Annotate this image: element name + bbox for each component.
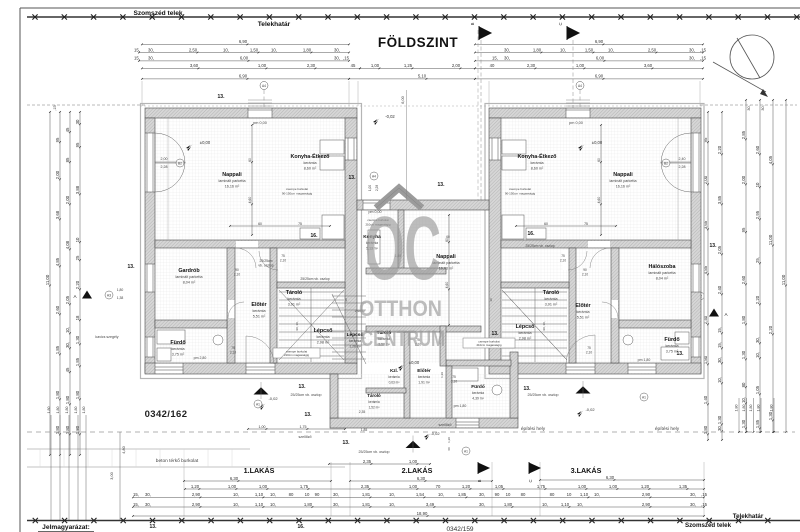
svg-text:10,: 10, xyxy=(542,502,548,507)
svg-text:15,: 15, xyxy=(492,56,498,61)
svg-text:Lépcső: Lépcső xyxy=(516,324,536,330)
svg-text:2,98 m²: 2,98 m² xyxy=(519,337,532,341)
svg-text:-0,02: -0,02 xyxy=(385,114,395,119)
svg-text:1,20: 1,20 xyxy=(447,437,451,443)
svg-text:2,00: 2,00 xyxy=(65,195,70,204)
left wing floor xyxy=(155,118,345,363)
svg-text:1,50: 1,50 xyxy=(585,47,594,52)
svg-text:30,: 30, xyxy=(504,56,510,61)
svg-text:Konyha-Étkező: Konyha-Étkező xyxy=(291,152,331,160)
svg-text:80: 80 xyxy=(741,382,746,387)
svg-text:2,10: 2,10 xyxy=(280,259,286,263)
svg-text:6,00: 6,00 xyxy=(240,56,249,61)
svg-text:2,10: 2,10 xyxy=(230,351,236,355)
svg-text:30: 30 xyxy=(75,119,80,124)
svg-text:4,60: 4,60 xyxy=(597,197,601,204)
svg-text:Szomszéd telek: Szomszéd telek xyxy=(685,522,732,529)
north compass symbol xyxy=(713,35,774,92)
svg-text:15,: 15, xyxy=(133,502,139,507)
svg-text:±0,00: ±0,00 xyxy=(409,360,420,365)
left wing french door arcs xyxy=(155,133,185,163)
svg-text:6,30: 6,30 xyxy=(230,476,239,481)
svg-text:,15: ,15 xyxy=(701,492,708,497)
svg-text:1,80: 1,80 xyxy=(55,390,60,399)
svg-text:1,85: 1,85 xyxy=(458,492,467,497)
svg-text:építési hely: építési hely xyxy=(521,426,546,432)
svg-text:2,30: 2,30 xyxy=(527,63,536,68)
svg-text:1,80: 1,80 xyxy=(742,405,746,412)
svg-text:1,80: 1,80 xyxy=(82,407,86,414)
svg-text:13.: 13. xyxy=(438,182,446,188)
svg-text:25/25cm vb. oszlop: 25/25cm vb. oszlop xyxy=(291,393,322,397)
svg-text:30,: 30, xyxy=(689,47,695,52)
right wing stairs xyxy=(502,288,567,362)
svg-text:kerámia: kerámia xyxy=(287,297,301,301)
svg-text:kerámia: kerámia xyxy=(576,310,590,314)
svg-text:15,: 15, xyxy=(134,47,140,52)
svg-text:Kzl.: Kzl. xyxy=(390,368,398,373)
courtyard facing wall window right xyxy=(490,138,501,160)
svg-text:30,: 30, xyxy=(145,502,151,507)
svg-text:1,10: 1,10 xyxy=(561,502,570,507)
svg-text:Előtér: Előtér xyxy=(251,302,267,308)
svg-text:1,80: 1,80 xyxy=(65,395,70,404)
svg-text:2,50: 2,50 xyxy=(189,47,198,52)
svg-text:15,: 15, xyxy=(717,327,722,333)
svg-text:kerámia: kerámia xyxy=(316,335,330,339)
svg-text:2,20: 2,20 xyxy=(755,295,760,304)
svg-text:1,80: 1,80 xyxy=(770,405,774,412)
svg-text:3.LAKÁS: 3.LAKÁS xyxy=(571,466,602,475)
svg-text:laminált parketta: laminált parketta xyxy=(648,271,676,275)
property boundary bottom xyxy=(27,520,800,522)
svg-text:2,98 m²: 2,98 m² xyxy=(317,341,330,345)
svg-text:1,80: 1,80 xyxy=(741,315,746,324)
svg-text:3,49: 3,49 xyxy=(426,502,435,507)
svg-text:13.: 13. xyxy=(524,386,532,392)
svg-text:OTTHON: OTTHON xyxy=(359,296,442,321)
svg-text:1,80: 1,80 xyxy=(304,502,313,507)
svg-text:10,: 10, xyxy=(438,492,444,497)
svg-text:1,80: 1,80 xyxy=(56,407,60,414)
svg-text:8,60 m²: 8,60 m² xyxy=(304,167,317,171)
svg-text:2,90: 2,90 xyxy=(642,492,651,497)
courtyard centerline xyxy=(406,90,408,200)
svg-text:2,30: 2,30 xyxy=(307,63,316,68)
right wing openings xyxy=(692,133,701,192)
svg-text:2.LAKÁS: 2.LAKÁS xyxy=(402,466,433,475)
svg-text:75: 75 xyxy=(281,254,285,258)
svg-text:kerámia: kerámia xyxy=(544,297,558,301)
svg-text:30,: 30, xyxy=(334,47,340,52)
svg-text:8,04 m²: 8,04 m² xyxy=(656,277,669,281)
svg-text:90: 90 xyxy=(583,268,587,272)
svg-text:80: 80 xyxy=(521,492,526,497)
svg-text:30,: 30, xyxy=(479,492,485,497)
svg-text:Tároló: Tároló xyxy=(286,290,303,296)
svg-text:,15: ,15 xyxy=(701,502,708,507)
svg-text:30: 30 xyxy=(489,298,493,302)
svg-text:2,10: 2,10 xyxy=(234,273,240,277)
vertical guides from dim block to building xyxy=(141,81,143,106)
svg-text:0,63 m²: 0,63 m² xyxy=(389,381,400,385)
svg-text:kerámia: kerámia xyxy=(171,347,185,351)
svg-text:1,91 m²: 1,91 m² xyxy=(418,381,430,385)
dimension rows top-middle xyxy=(360,67,475,69)
fence connector dims bottom-right xyxy=(738,398,740,432)
svg-text:10,: 10, xyxy=(270,492,276,497)
svg-text:11,00: 11,00 xyxy=(45,274,50,285)
svg-text:2,60: 2,60 xyxy=(55,305,60,314)
svg-text:1,10: 1,10 xyxy=(580,492,589,497)
svg-text:1,30: 1,30 xyxy=(717,415,722,424)
svg-text:10,: 10, xyxy=(608,47,614,52)
svg-text:Telekhatár: Telekhatár xyxy=(733,513,764,520)
beton terko burkolat walkway xyxy=(27,448,250,450)
svg-text:8,60 m²: 8,60 m² xyxy=(531,167,544,171)
svg-text:Lépcső: Lépcső xyxy=(314,328,334,334)
svg-text:1,80: 1,80 xyxy=(75,390,80,399)
svg-text:85: 85 xyxy=(65,157,70,162)
svg-text:2,00: 2,00 xyxy=(741,175,746,184)
svg-text:1,05: 1,05 xyxy=(755,385,760,394)
svg-text:2,28: 2,28 xyxy=(679,165,686,169)
svg-text:16,16 m²: 16,16 m² xyxy=(616,185,631,189)
svg-text:30,: 30, xyxy=(479,502,485,507)
svg-text:1,00: 1,00 xyxy=(576,63,585,68)
svg-text:Tároló: Tároló xyxy=(367,393,381,398)
svg-text:90: 90 xyxy=(235,268,239,272)
svg-text:-0,02: -0,02 xyxy=(585,407,595,412)
svg-text:40: 40 xyxy=(490,63,495,68)
svg-text:30,: 30, xyxy=(333,502,339,507)
page border frame xyxy=(20,7,800,9)
svg-text:Előtér: Előtér xyxy=(417,368,431,374)
svg-text:2,10: 2,10 xyxy=(582,273,588,277)
svg-text:1,75: 1,75 xyxy=(537,484,546,489)
interior door swing arcs right wing xyxy=(590,248,610,268)
svg-text:1,80: 1,80 xyxy=(65,407,69,414)
svg-text:1,10: 1,10 xyxy=(255,502,264,507)
entry porch chevron xyxy=(376,188,422,208)
svg-text:1,00: 1,00 xyxy=(409,484,418,489)
svg-text:2,28: 2,28 xyxy=(161,165,168,169)
svg-text:1,38: 1,38 xyxy=(117,296,124,300)
svg-text:2,28: 2,28 xyxy=(375,185,379,191)
svg-text:30,: 30, xyxy=(65,342,70,348)
svg-text:13.: 13. xyxy=(349,175,357,181)
svg-text:30,: 30, xyxy=(717,357,722,363)
svg-text:2,40: 2,40 xyxy=(679,157,686,161)
svg-text:15,: 15, xyxy=(133,492,139,497)
svg-text:B: B xyxy=(477,479,482,482)
svg-text:1,80: 1,80 xyxy=(117,288,124,292)
svg-text:±0,00: ±0,00 xyxy=(200,140,211,145)
svg-text:1,28 m²: 1,28 m² xyxy=(349,345,361,349)
center unit exterior walls xyxy=(357,200,489,210)
svg-text:1,20: 1,20 xyxy=(641,484,650,489)
svg-text:A4: A4 xyxy=(262,84,266,88)
right wing bath fixtures xyxy=(623,332,689,360)
svg-text:6,30: 6,30 xyxy=(417,476,426,481)
svg-text:1,81: 1,81 xyxy=(362,502,371,507)
vertical dimension chains left xyxy=(49,112,51,455)
svg-text:3,00: 3,00 xyxy=(110,472,114,479)
porch triangles xyxy=(254,387,269,394)
svg-text:75: 75 xyxy=(452,375,456,379)
svg-text:1,80: 1,80 xyxy=(47,407,51,414)
svg-text:1,85: 1,85 xyxy=(75,357,80,366)
entrance steps left wing xyxy=(248,99,272,101)
svg-text:,15: ,15 xyxy=(700,47,707,52)
svg-text:95: 95 xyxy=(741,227,746,232)
right wing bottom wall openings xyxy=(566,364,595,374)
svg-text:pm 0,00: pm 0,00 xyxy=(253,121,267,125)
center unit entry opening xyxy=(363,201,390,210)
svg-text:90, 10,: 90, 10, xyxy=(295,321,299,330)
svg-text:8,04 m²: 8,04 m² xyxy=(183,281,196,285)
svg-text:C: C xyxy=(558,22,563,25)
svg-text:4,39 m²: 4,39 m² xyxy=(472,397,484,401)
svg-text:Fürdő: Fürdő xyxy=(664,337,680,343)
epitesi hely dashed line xyxy=(27,431,795,433)
svg-text:Szomszéd telek: Szomszéd telek xyxy=(133,10,182,17)
svg-text:3,75 m²: 3,75 m² xyxy=(172,353,185,357)
svg-text:2,85: 2,85 xyxy=(741,130,746,139)
svg-text:210cm magasságig: 210cm magasságig xyxy=(476,343,501,347)
svg-text:1,75: 1,75 xyxy=(300,484,309,489)
svg-text:építési hely: építési hely xyxy=(655,426,680,432)
svg-text:3,85: 3,85 xyxy=(717,195,722,204)
svg-text:kerámia: kerámia xyxy=(530,161,544,165)
section marker B top xyxy=(479,26,491,40)
svg-text:10: 10 xyxy=(567,492,572,497)
svg-text:C: C xyxy=(528,479,533,482)
svg-text:pm 1,80: pm 1,80 xyxy=(638,358,651,362)
svg-text:0342/159: 0342/159 xyxy=(446,526,473,532)
svg-text:6,00: 6,00 xyxy=(596,56,605,61)
svg-text:1,85: 1,85 xyxy=(55,345,60,354)
svg-text:1,00: 1,00 xyxy=(259,425,266,429)
svg-text:45: 45 xyxy=(65,367,70,372)
svg-text:1,10: 1,10 xyxy=(255,492,264,497)
svg-text:30,: 30, xyxy=(145,492,151,497)
svg-text:2,20: 2,20 xyxy=(75,280,80,289)
svg-text:OC: OC xyxy=(365,199,441,299)
svg-text:kerámia: kerámia xyxy=(303,161,317,165)
svg-text:Konyha-Étkező: Konyha-Étkező xyxy=(518,152,558,160)
svg-text:1,40: 1,40 xyxy=(703,395,708,404)
svg-text:beton térkő burkolat: beton térkő burkolat xyxy=(156,458,199,464)
svg-text:A3: A3 xyxy=(107,293,111,297)
svg-text:pm 2,80: pm 2,80 xyxy=(194,356,207,360)
svg-text:25,: 25, xyxy=(755,257,760,263)
svg-text:2,35: 2,35 xyxy=(363,459,372,464)
svg-text:45: 45 xyxy=(351,63,356,68)
svg-text:3,60: 3,60 xyxy=(644,63,653,68)
svg-text:75: 75 xyxy=(587,346,591,350)
svg-text:10: 10 xyxy=(75,237,80,242)
svg-text:1,80: 1,80 xyxy=(749,405,753,412)
svg-text:13.: 13. xyxy=(710,243,718,249)
svg-text:4,85: 4,85 xyxy=(55,257,60,266)
svg-text:2,10: 2,10 xyxy=(586,351,592,355)
csempe burkolat note boxes xyxy=(273,348,320,358)
left wing stairs xyxy=(279,288,344,362)
svg-text:szellőző: szellőző xyxy=(439,423,452,427)
svg-text:16,16 m²: 16,16 m² xyxy=(225,185,240,189)
svg-text:10,: 10, xyxy=(389,502,395,507)
left wing outer insulation outline xyxy=(141,104,362,379)
svg-text:13.: 13. xyxy=(343,440,351,446)
svg-text:csempe burkolat: csempe burkolat xyxy=(509,187,531,191)
svg-text:2,40: 2,40 xyxy=(717,285,722,294)
svg-text:Fürdő: Fürdő xyxy=(471,384,485,390)
svg-text:kerámia: kerámia xyxy=(349,339,361,343)
svg-text:pm 1,80: pm 1,80 xyxy=(454,404,467,408)
svg-text:2,35: 2,35 xyxy=(359,410,366,414)
svg-text:1,20: 1,20 xyxy=(191,484,200,489)
svg-text:30,: 30, xyxy=(717,425,722,431)
svg-text:2,60: 2,60 xyxy=(741,275,746,284)
svg-text:1,85: 1,85 xyxy=(361,428,368,432)
svg-text:Nappali: Nappali xyxy=(222,172,242,178)
right wing floor xyxy=(501,118,691,363)
svg-text:1,30: 1,30 xyxy=(741,419,746,428)
svg-text:1,81: 1,81 xyxy=(362,492,371,497)
svg-text:B2: B2 xyxy=(664,161,668,165)
svg-text:30,: 30, xyxy=(148,47,154,52)
svg-text:3,88: 3,88 xyxy=(75,185,80,194)
center unit partitions xyxy=(398,210,404,270)
svg-text:10,: 10, xyxy=(271,47,277,52)
svg-text:szellőző: szellőző xyxy=(299,435,312,439)
svg-text:30: 30 xyxy=(344,298,348,302)
svg-text:2,00: 2,00 xyxy=(452,63,461,68)
svg-text:16,03 m²: 16,03 m² xyxy=(439,267,454,271)
svg-text:2,00: 2,00 xyxy=(55,170,60,179)
interior dimension chains xyxy=(251,125,253,235)
right wing kitchen counter xyxy=(502,140,546,239)
svg-text:2,05: 2,05 xyxy=(65,295,70,304)
svg-text:2,20: 2,20 xyxy=(717,145,722,154)
svg-text:1,80: 1,80 xyxy=(55,425,60,434)
svg-text:6,00: 6,00 xyxy=(401,96,405,103)
svg-text:1,00: 1,00 xyxy=(228,484,237,489)
svg-text:2,95: 2,95 xyxy=(755,210,760,219)
svg-text:60: 60 xyxy=(544,222,548,226)
svg-text:2,60: 2,60 xyxy=(755,145,760,154)
svg-text:1,25: 1,25 xyxy=(404,63,413,68)
svg-text:2,20: 2,20 xyxy=(768,325,773,334)
left wing bath fixtures xyxy=(157,330,223,361)
svg-text:25/25cm vb. oszlop: 25/25cm vb. oszlop xyxy=(359,450,390,454)
svg-text:2,90: 2,90 xyxy=(192,502,201,507)
svg-text:4,60: 4,60 xyxy=(248,197,252,204)
entrance steps right wing xyxy=(566,99,590,101)
svg-text:25/25cm vb. oszlop: 25/25cm vb. oszlop xyxy=(528,393,559,397)
svg-text:2,10: 2,10 xyxy=(560,259,566,263)
right wing french door arcs xyxy=(661,133,691,163)
svg-text:80: 80 xyxy=(550,492,555,497)
svg-text:16.: 16. xyxy=(528,231,536,237)
svg-text:10,: 10, xyxy=(560,47,566,52)
svg-text:90, 10,: 90, 10, xyxy=(542,321,546,330)
svg-text:Gardrób: Gardrób xyxy=(178,268,200,274)
svg-text:13.: 13. xyxy=(677,351,685,357)
svg-text:10,: 10, xyxy=(594,492,600,497)
svg-text:5,10: 5,10 xyxy=(418,74,427,79)
svg-text:kerámia: kerámia xyxy=(518,331,532,335)
svg-text:1,00: 1,00 xyxy=(259,484,268,489)
svg-text:30,: 30, xyxy=(333,492,339,497)
section marker C bottom xyxy=(529,462,540,474)
svg-text:90: 90 xyxy=(315,492,320,497)
svg-text:30,: 30, xyxy=(148,56,154,61)
svg-text:3,91 m²: 3,91 m² xyxy=(288,303,301,307)
svg-text:45: 45 xyxy=(65,127,70,132)
svg-text:A4: A4 xyxy=(578,84,582,88)
svg-text:2,35: 2,35 xyxy=(361,484,370,489)
svg-text:4,80: 4,80 xyxy=(122,446,126,453)
bottom entrance door arcs xyxy=(246,336,274,364)
svg-text:70: 70 xyxy=(436,484,441,489)
svg-text:4,08: 4,08 xyxy=(65,240,70,249)
svg-text:3,60: 3,60 xyxy=(190,63,199,68)
svg-text:15,: 15, xyxy=(717,342,722,348)
svg-text:13.: 13. xyxy=(218,94,226,100)
svg-text:25: 25 xyxy=(75,255,80,260)
svg-text:10,: 10, xyxy=(223,47,229,52)
svg-text:10,: 10, xyxy=(389,492,395,497)
svg-text:1.LAKÁS: 1.LAKÁS xyxy=(244,466,275,475)
svg-text:13.: 13. xyxy=(305,412,313,418)
svg-text:5,51 m²: 5,51 m² xyxy=(253,315,266,319)
svg-text:30,: 30, xyxy=(504,47,510,52)
svg-text:1,30: 1,30 xyxy=(768,411,773,420)
svg-text:30,: 30, xyxy=(747,105,751,110)
svg-text:16.: 16. xyxy=(298,524,306,530)
svg-text:10: 10 xyxy=(305,492,310,497)
section marker C top xyxy=(567,26,579,40)
svg-text:A4: A4 xyxy=(372,174,376,178)
section marker A left xyxy=(82,291,92,299)
svg-text:95: 95 xyxy=(55,137,60,142)
svg-text:15,: 15, xyxy=(134,56,140,61)
svg-text:75: 75 xyxy=(561,254,565,258)
svg-text:B: B xyxy=(470,22,475,25)
svg-text:6,90: 6,90 xyxy=(239,74,248,79)
courtyard facing wall windows xyxy=(346,138,357,160)
svg-text:13.: 13. xyxy=(299,384,307,390)
svg-text:11,00: 11,00 xyxy=(768,234,773,245)
svg-text:FÖLDSZINT: FÖLDSZINT xyxy=(378,35,458,50)
svg-text:30,: 30, xyxy=(690,502,696,507)
svg-text:Hálószoba: Hálószoba xyxy=(649,264,677,270)
svg-text:210cm magasságig: 210cm magasságig xyxy=(284,353,309,357)
svg-text:10,: 10, xyxy=(270,502,276,507)
svg-text:5,51 m²: 5,51 m² xyxy=(577,316,590,320)
svg-text:10,: 10, xyxy=(741,397,746,403)
svg-text:25/25cm: 25/25cm xyxy=(259,259,272,263)
svg-text:csempe burkolat: csempe burkolat xyxy=(286,187,308,191)
svg-text:95: 95 xyxy=(75,142,80,147)
svg-text:90-150cm magasságig: 90-150cm magasságig xyxy=(505,192,536,196)
svg-text:kerámia: kerámia xyxy=(388,375,400,379)
svg-text:75: 75 xyxy=(584,222,588,226)
interior door swing arcs left wing xyxy=(236,248,256,268)
svg-text:-0,02: -0,02 xyxy=(268,396,278,401)
